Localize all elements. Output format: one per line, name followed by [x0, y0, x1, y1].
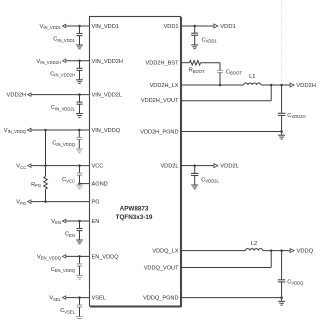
ground below CIN_VDD2L — [76, 113, 83, 115]
wire VDDQ PGND ground stub — [281, 298, 283, 302]
junction VOUT sense node — [270, 84, 273, 87]
svg-text:VPG: VPG — [16, 200, 26, 206]
svg-text:CIN_VDDQ: CIN_VDDQ — [52, 141, 75, 147]
svg-text:VEN: VEN — [51, 219, 61, 225]
capacitor CVDD2H — [278, 112, 286, 114]
node VIN_VDD1 input arrow — [62, 24, 65, 28]
svg-text:VIN_VDD1: VIN_VDD1 — [39, 24, 61, 30]
svg-text:VDD2L: VDD2L — [160, 164, 178, 170]
svg-text:AGND: AGND — [92, 182, 108, 188]
inductor L1 — [244, 83, 261, 85]
wire CVDDQ bottom lead — [281, 282, 283, 298]
ground below CVDD1 — [191, 44, 198, 46]
svg-text:VIN_VDDQ: VIN_VDDQ — [92, 128, 121, 134]
wire L1 to VDD2H arrow — [261, 84, 291, 86]
wire cap top lead — [79, 95, 81, 103]
wire RPG to PG line — [45, 189, 47, 202]
wire CVDD2L bottom lead — [194, 176, 196, 186]
svg-text:VCC: VCC — [92, 164, 104, 170]
junction VCC rail crossing — [44, 164, 47, 167]
wire CVDD2H bottom lead — [281, 115, 283, 131]
ground below CEN_VDDQ — [76, 274, 83, 276]
wire RBOOT to corner — [201, 62, 220, 64]
wire CVDD2L top lead — [194, 166, 196, 174]
svg-text:VDDQ_VOUT: VDDQ_VOUT — [144, 266, 179, 272]
junction on IN_VDD1 branch — [78, 25, 81, 28]
junction AGND node — [78, 182, 81, 185]
svg-text:VIN_VDDQ: VIN_VDDQ — [4, 128, 27, 134]
wire VEN to pin — [64, 220, 90, 222]
wire cap top lead — [79, 256, 81, 264]
wire VIN_VDD2H to pin — [64, 60, 90, 62]
wire PGND ground stub — [281, 132, 283, 136]
junction on IN_VDD2H branch — [78, 60, 81, 63]
wire BST pin to RBOOT — [181, 62, 190, 64]
capacitor CBOOT — [217, 70, 223, 72]
resistor RBOOT — [189, 60, 200, 65]
capacitor CEN_VDDQ — [77, 263, 83, 265]
node VEN input arrow — [62, 219, 65, 223]
wire VOUT pin run — [181, 100, 272, 102]
svg-text:RPG: RPG — [31, 182, 41, 188]
wire CVDD2H top lead — [281, 85, 283, 113]
svg-text:VIN_VDD2L: VIN_VDD2L — [92, 93, 122, 99]
ground below CIN_VDDQ — [76, 148, 83, 150]
wire VOUT sense up — [270, 85, 272, 101]
svg-text:VDD2H_VOUT: VDD2H_VOUT — [141, 98, 179, 104]
svg-text:CBOOT: CBOOT — [226, 69, 242, 75]
svg-text:VDD2H_LX: VDD2H_LX — [150, 83, 179, 89]
wire VDD2H to pin — [29, 94, 89, 96]
wire cap bottom lead — [79, 36, 81, 45]
ground below CVDD2L — [191, 184, 198, 186]
junction CBOOT on LX wire — [219, 84, 222, 87]
wire cap bottom lead — [78, 140, 80, 149]
wire CVCC top lead — [79, 166, 81, 174]
node VDD1 output arrow — [214, 24, 218, 28]
svg-text:PG: PG — [92, 200, 100, 206]
svg-text:VCC: VCC — [16, 164, 26, 170]
svg-text:CVDD2H: CVDD2H — [287, 113, 305, 119]
capacitor CIN_VDDQ — [77, 137, 83, 139]
node VIN_VDD2H input arrow — [62, 59, 65, 63]
wire PG to pin — [29, 201, 89, 203]
inductor L2 — [245, 249, 262, 251]
wire PGND pin run — [181, 131, 282, 133]
svg-text:VDDQ_LX: VDDQ_LX — [152, 249, 178, 255]
junction CVDD2H node — [280, 84, 283, 87]
svg-text:VSEL: VSEL — [92, 296, 106, 302]
svg-text:CIN_VDD1: CIN_VDD1 — [53, 37, 75, 43]
junction CVDD2L — [193, 164, 196, 167]
svg-text:CIN_VDD2H: CIN_VDD2H — [50, 71, 75, 77]
node VSEL input arrow — [62, 296, 65, 300]
ground at AGND — [76, 184, 83, 186]
node VDD2L output arrow — [214, 164, 218, 168]
wire CVDD1 top lead — [194, 26, 196, 33]
wire cap top lead — [79, 298, 81, 306]
capacitor CVCC — [77, 172, 83, 174]
wire VIN_VDDQ/VCC vertical rail — [45, 130, 47, 177]
ground below CVSEL — [76, 316, 83, 318]
svg-text:VDD2H_PGND: VDD2H_PGND — [140, 130, 178, 136]
node VEN_VDDQ input arrow — [62, 255, 65, 259]
capacitor CVDD2L — [191, 172, 199, 174]
wire cap bottom lead — [79, 231, 81, 240]
svg-text:APW8873: APW8873 — [120, 206, 149, 213]
wire corner down to CBOOT — [219, 63, 221, 71]
junction on VSEL branch — [78, 296, 81, 299]
svg-text:L2: L2 — [251, 241, 257, 247]
junction on EN branch — [78, 220, 81, 223]
junction on CVCC branch — [78, 164, 81, 167]
wire CVDD1 bottom lead — [194, 35, 196, 45]
svg-text:CIN_VDD2L: CIN_VDD2L — [51, 105, 76, 111]
wire CVDDQ top lead — [281, 251, 283, 280]
svg-text:VDDQ_PGND: VDDQ_PGND — [143, 296, 178, 302]
svg-text:VDD2L: VDD2L — [220, 164, 239, 170]
capacitor CEN — [77, 228, 83, 230]
wire LX pin to L1 — [181, 84, 244, 86]
svg-text:RBOOT: RBOOT — [189, 68, 205, 74]
junction CVDDQ node — [280, 249, 283, 252]
wire VDD2L pin to arrow — [181, 165, 215, 167]
capacitor CVSEL — [77, 304, 83, 306]
svg-text:VDD2H: VDD2H — [7, 93, 27, 99]
wire cap top lead — [79, 61, 81, 69]
resistor RPG — [44, 177, 48, 190]
node VDD2H input arrow — [28, 93, 31, 97]
wire cap bottom lead — [79, 70, 81, 79]
ground below CEN — [76, 239, 83, 241]
wire cap top lead — [79, 26, 81, 34]
junction RPG on PG wire — [44, 200, 47, 203]
junction on EN_VDDQ branch — [78, 255, 81, 258]
svg-text:VIN_VDD2H: VIN_VDD2H — [92, 59, 123, 65]
wire VSEL to pin — [64, 297, 90, 299]
wire CVCC bottom lead — [79, 175, 81, 183]
op-amp U1 APW8873 regulator IC body — [90, 17, 181, 307]
wire CBOOT to LX node — [219, 73, 221, 85]
svg-text:CVDD1: CVDD1 — [202, 37, 218, 43]
capacitor CVDD1 — [191, 32, 198, 34]
ground at VDDQ_PGND — [278, 300, 285, 302]
wire dashed sense line — [281, 0, 283, 84]
wire VDD1 pin to arrow — [181, 25, 215, 27]
svg-text:VDDQ: VDDQ — [297, 249, 314, 255]
node VDDQ output arrow — [290, 249, 294, 253]
svg-text:CVDD2L: CVDD2L — [201, 177, 219, 183]
wire cap bottom lead — [79, 307, 81, 316]
junction on IN_VDDQ branch — [78, 129, 81, 132]
svg-text:CVCC: CVCC — [62, 177, 75, 183]
svg-text:VDD1: VDD1 — [220, 24, 235, 30]
svg-text:VDD2H_BST: VDD2H_BST — [146, 61, 180, 67]
wire VDDQ VOUT sense up — [270, 251, 272, 268]
node VDD2H output arrow — [290, 83, 294, 87]
svg-text:VSEL: VSEL — [49, 296, 61, 302]
wire cap bottom lead — [79, 266, 81, 275]
wire VDDQ VOUT pin run — [181, 267, 272, 269]
node VIN_VDDQ input arrow — [28, 128, 31, 132]
ground below CIN_VDD2H — [76, 79, 83, 81]
wire VDDQ_LX pin to L2 — [181, 250, 246, 252]
svg-text:VIN_VDD1: VIN_VDD1 — [92, 24, 119, 30]
svg-text:EN_VDDQ: EN_VDDQ — [92, 254, 120, 260]
wire cap bottom lead — [79, 104, 81, 113]
capacitor CIN_VDD2L — [77, 101, 83, 103]
svg-text:CEN_VDDQ: CEN_VDDQ — [51, 267, 76, 273]
node PG arrow — [28, 200, 31, 204]
wire VIN_VDDQ to pin — [29, 129, 89, 131]
svg-text:TQFN3x3-19: TQFN3x3-19 — [116, 214, 153, 221]
junction PGND node — [280, 130, 283, 133]
wire L2 to VDDQ arrow — [263, 250, 291, 252]
junction VDDQ PGND node — [280, 296, 283, 299]
capacitor CIN_VDD2H — [77, 67, 83, 69]
svg-text:VDD2H: VDD2H — [296, 83, 316, 89]
wire VDDQ PGND pin run — [181, 297, 282, 299]
node VCC input arrow — [28, 164, 31, 168]
wire VCC to pin — [29, 165, 89, 167]
capacitor CVDDQ — [278, 279, 286, 281]
junction CVDD1 — [193, 25, 196, 28]
ground below CIN_VDD1 — [76, 44, 83, 46]
svg-text:L1: L1 — [249, 74, 255, 80]
junction on IN_VDD2L branch — [78, 93, 81, 96]
junction VDDQ VOUT sense node — [270, 249, 273, 252]
svg-text:CEN: CEN — [65, 232, 75, 238]
wire cap top lead — [78, 130, 80, 138]
svg-text:VEN_VDDQ: VEN_VDDQ — [37, 254, 62, 260]
wire AGND pin stub — [80, 183, 90, 185]
ground at VDD2H_PGND — [278, 134, 285, 136]
svg-text:CVSEL: CVSEL — [60, 308, 75, 314]
svg-text:VDD1: VDD1 — [164, 24, 179, 30]
wire cap top lead — [79, 221, 81, 229]
capacitor CIN_VDD1 — [77, 33, 83, 35]
wire VEN_VDDQ to pin — [64, 255, 90, 257]
node junction VIN_VDDQ to VCC rail — [44, 129, 47, 132]
svg-text:EN: EN — [92, 219, 100, 225]
svg-text:VIN_VDD2H: VIN_VDD2H — [36, 59, 61, 65]
wire VIN_VDD1 to pin — [64, 25, 90, 27]
svg-text:CVDDQ: CVDDQ — [287, 279, 304, 285]
